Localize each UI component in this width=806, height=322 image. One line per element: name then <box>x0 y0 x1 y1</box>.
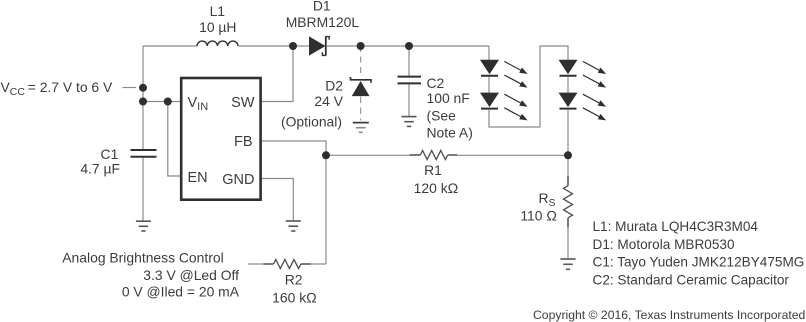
svg-text:C2: C2 <box>427 75 445 91</box>
node EN junction <box>164 98 172 106</box>
LED string right lower <box>559 93 607 121</box>
svg-text:D1: D1 <box>313 0 331 13</box>
wire FB pin <box>261 141 326 264</box>
wire VIN pin <box>143 101 182 103</box>
svg-text:24 V: 24 V <box>314 93 343 109</box>
svg-text:C1: C1 <box>101 146 119 162</box>
svg-text:3.3 V @Led Off: 3.3 V @Led Off <box>143 267 239 283</box>
svg-text:C1: Tayo Yuden JMK212BY475MG: C1: Tayo Yuden JMK212BY475MG <box>593 255 805 270</box>
svg-text:160 kΩ: 160 kΩ <box>272 289 317 305</box>
svg-text:(See: (See <box>427 107 457 123</box>
wire <box>142 157 144 221</box>
wire <box>488 77 490 93</box>
svg-text:Note A): Note A) <box>427 124 473 140</box>
svg-text:0 V @Iled = 20 mA: 0 V @Iled = 20 mA <box>122 284 240 300</box>
svg-text:Analog Brightness Control: Analog Brightness Control <box>62 250 223 266</box>
wire EN pin <box>168 102 182 177</box>
resistor RS <box>564 176 573 228</box>
svg-text:Copyright © 2016, Texas Instru: Copyright © 2016, Texas Instruments Inco… <box>533 308 805 322</box>
svg-text:C2: Standard Ceramic Capacitor: C2: Standard Ceramic Capacitor <box>593 272 790 287</box>
node D2 junction <box>357 42 365 50</box>
wire <box>567 77 569 93</box>
ground D2 <box>353 123 369 133</box>
svg-text:L1: Murata LQH4C3R3M04: L1: Murata LQH4C3R3M04 <box>593 219 759 234</box>
wire <box>248 263 264 265</box>
wire GND pin <box>261 179 294 222</box>
diode D1 <box>309 36 329 55</box>
wire <box>310 263 326 265</box>
wire D2 dashed lower <box>360 97 362 121</box>
wire <box>457 154 568 156</box>
wire <box>489 46 568 127</box>
ground GND pin <box>286 221 301 231</box>
wire <box>327 45 489 47</box>
svg-text:MBRM120L: MBRM120L <box>286 14 360 30</box>
wire <box>142 46 144 149</box>
svg-text:R2: R2 <box>285 272 303 288</box>
svg-text:4.7 µF: 4.7 µF <box>80 161 120 177</box>
node VIN junction <box>139 98 147 106</box>
wire C2 <box>408 46 410 76</box>
wire D2 dashed <box>360 46 362 77</box>
wire <box>567 227 569 259</box>
wire <box>143 45 197 47</box>
svg-text:D1: Motorola MBR0530: D1: Motorola MBR0530 <box>593 237 735 252</box>
svg-text:L1: L1 <box>210 3 226 19</box>
resistor R1 <box>410 151 458 160</box>
zener diode D2 <box>351 77 372 96</box>
svg-text:(Optional): (Optional) <box>281 113 342 129</box>
IC U1 <box>181 78 260 200</box>
svg-text:FB: FB <box>234 134 253 150</box>
wire <box>238 45 309 47</box>
capacitor C1 <box>131 150 157 157</box>
wire FB net <box>326 154 410 156</box>
wire <box>123 87 137 89</box>
node C2 junction <box>405 42 413 50</box>
wire <box>488 46 490 60</box>
svg-text:110 Ω: 110 Ω <box>520 208 557 224</box>
svg-text:SW: SW <box>231 95 255 111</box>
ground RS <box>561 259 576 269</box>
ground C1 <box>136 221 151 231</box>
wire <box>408 85 410 117</box>
svg-text:120 kΩ: 120 kΩ <box>414 180 459 196</box>
LED string left lower <box>480 93 528 121</box>
svg-text:D2: D2 <box>325 77 343 93</box>
svg-text:EN: EN <box>188 170 208 186</box>
wire <box>567 109 569 176</box>
LED string left <box>480 60 528 88</box>
wire SW pin <box>261 46 293 102</box>
node LED-RS junction <box>564 151 572 159</box>
capacitor C2 <box>398 77 422 84</box>
svg-text:R1: R1 <box>424 162 442 178</box>
resistor R2 <box>264 260 311 269</box>
svg-text:10 µH: 10 µH <box>199 19 236 35</box>
node FB junction <box>322 151 330 159</box>
inductor L1 <box>197 41 238 46</box>
svg-text:100 nF: 100 nF <box>427 90 470 106</box>
svg-text:GND: GND <box>222 172 254 188</box>
LED string right <box>559 60 607 88</box>
node VCC junction <box>139 84 147 92</box>
node SW junction <box>289 42 297 50</box>
ground C2 <box>402 117 417 127</box>
